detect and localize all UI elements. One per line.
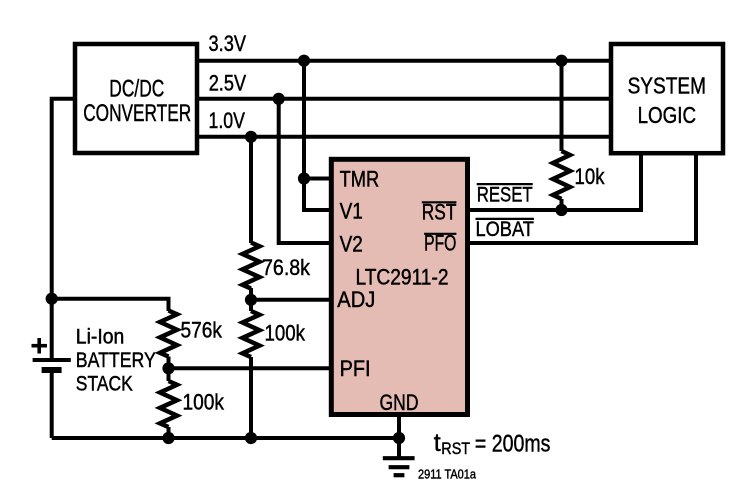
node dot GND junction (393, 432, 405, 444)
svg-text:PFI: PFI (340, 356, 371, 381)
wire 100k right bottom to ground rail (249, 357, 253, 438)
wire DC/DC left lead (52, 99, 75, 360)
svg-text:576k: 576k (181, 318, 223, 343)
wire ADJ node verticals (249, 288, 253, 311)
wire ADJ stub (251, 298, 331, 302)
svg-text:LTC2911-2: LTC2911-2 (356, 264, 449, 289)
box SYSTEM LOGIC (611, 44, 723, 153)
wire PFI stub (169, 366, 332, 370)
node dot ADJ junction (245, 294, 257, 306)
wire 2.5V drop to V2 (279, 99, 332, 243)
svg-text:2.5V: 2.5V (209, 71, 247, 96)
wire 10k bottom to RESET (560, 199, 564, 210)
svg-text:V2: V2 (340, 231, 363, 256)
node dot PFI junction (162, 362, 174, 374)
node dot ground rail mid (245, 432, 257, 444)
wire ground rail bottom (52, 436, 399, 440)
svg-text:10k: 10k (575, 164, 606, 189)
node dot battery top junction (46, 293, 58, 305)
resistor R 100k lower (160, 381, 177, 427)
svg-text:RESET: RESET (477, 184, 533, 207)
svg-text:t: t (434, 429, 441, 457)
wire GND pin drop (397, 415, 401, 458)
svg-text:3.3V: 3.3V (209, 31, 247, 56)
node dot 3.3V/10k tap (555, 55, 567, 67)
svg-text:V1: V1 (340, 198, 363, 223)
battery BT Li-Ion stack (33, 358, 71, 362)
wire battery bottom lead (50, 370, 54, 438)
battery plus sign (32, 344, 48, 348)
svg-text:TMR: TMR (340, 166, 380, 191)
node dot 2.5V/V2 tap (273, 93, 285, 105)
svg-text:BATTERY: BATTERY (76, 349, 156, 372)
svg-text:100k: 100k (265, 321, 306, 346)
wire 576k to PFI node (167, 357, 171, 382)
node dot TMR junction (298, 172, 310, 184)
node dot 3.3V/TMR tap (298, 55, 310, 67)
resistor R 76.8k (243, 243, 260, 289)
svg-text:ADJ: ADJ (337, 287, 375, 312)
wire battery top to 576k (52, 299, 169, 311)
ground symbol (383, 456, 415, 460)
svg-text:STACK: STACK (76, 373, 133, 396)
svg-text:DC/DC: DC/DC (109, 76, 164, 103)
svg-text:100k: 100k (183, 390, 225, 415)
resistor R 576k (160, 311, 177, 357)
svg-text:LOGIC: LOGIC (638, 102, 696, 128)
box DC/DC converter (75, 44, 197, 153)
wire 2.5V rail (197, 97, 611, 101)
resistor R 100k upper (243, 311, 260, 357)
svg-text:Li-Ion: Li-Ion (76, 326, 125, 349)
node dot ground rail left (162, 432, 174, 444)
svg-text:RST: RST (441, 439, 470, 458)
svg-text:CONVERTER: CONVERTER (83, 100, 191, 127)
wire 3.3V rail (197, 59, 611, 63)
wire 1.0V drop to 76.8k (249, 137, 253, 243)
svg-text:LOBAT: LOBAT (476, 218, 535, 241)
wire 1.0V rail (197, 135, 611, 139)
svg-text:1.0V: 1.0V (209, 108, 246, 133)
svg-text:GND: GND (380, 390, 419, 415)
node dot 10k/RESET junction (555, 204, 567, 216)
svg-text:SYSTEM: SYSTEM (628, 73, 706, 99)
node dot 1.0V/76.8k tap (245, 131, 257, 143)
wire LOBAT line (468, 153, 697, 243)
svg-text:2911 TA01a: 2911 TA01a (418, 466, 477, 481)
svg-text:= 200ms: = 200ms (475, 431, 551, 458)
wire TMR stub (304, 177, 331, 181)
wire 3.3V drop to 10k (560, 61, 564, 151)
wire 100k left bottom (167, 427, 171, 438)
IC U1 LTC2911-2 (331, 159, 467, 414)
wire 3.3V drop to TMR/V1 (304, 61, 331, 210)
resistor R 10k (553, 151, 570, 199)
svg-text:76.8k: 76.8k (262, 255, 311, 280)
wire RESET line (468, 153, 642, 210)
